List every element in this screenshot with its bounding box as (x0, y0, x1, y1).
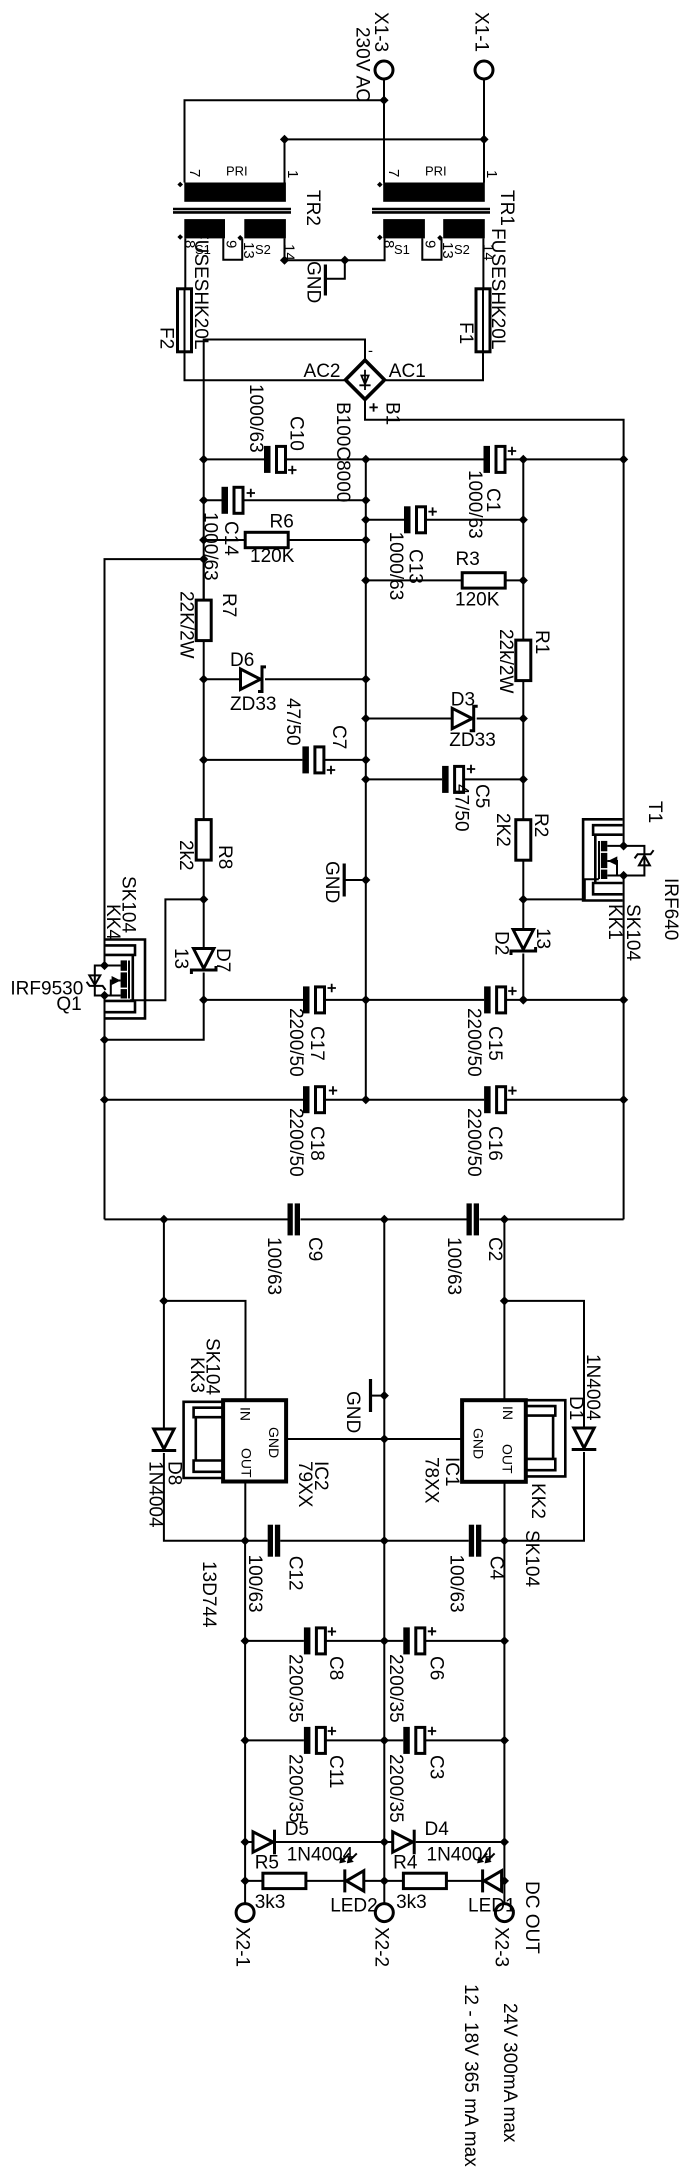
junction far-left rail / C18 row (100, 1095, 109, 1104)
TR2 pin 8 polarity dot (177, 234, 183, 240)
junction center rail / C14 row (361, 496, 370, 505)
wire F1 to bridge AC1 (386, 352, 483, 380)
wire TR2 pin14 to GND node (285, 238, 345, 260)
junction X1-3 node (379, 96, 388, 105)
junction -out rail / R5 row (241, 1876, 250, 1885)
svg-text:GND: GND (303, 261, 324, 303)
svg-text:R2: R2 (530, 813, 551, 837)
transformer TR1 (372, 183, 490, 239)
C18 plus mark (329, 1086, 337, 1094)
TR1 pin 13 polarity dot (437, 235, 443, 241)
svg-text:D3: D3 (451, 689, 475, 710)
ground GND (center rail) (344, 864, 366, 897)
svg-text:9: 9 (422, 240, 439, 248)
wire bridge plus to plus rail (365, 399, 624, 459)
svg-text:D8: D8 (164, 1461, 185, 1485)
wire feed to D1 anode (504, 1301, 584, 1428)
svg-text:2200/50: 2200/50 (285, 1108, 306, 1177)
svg-text:D4: D4 (425, 1819, 450, 1840)
svg-text:-: - (368, 343, 373, 360)
svg-text:9: 9 (223, 240, 240, 248)
svg-text:KK1: KK1 (604, 904, 625, 940)
svg-text:C2: C2 (484, 1237, 505, 1261)
TR2 pin 7 polarity dot (177, 182, 183, 188)
svg-text:Q1: Q1 (56, 994, 81, 1015)
wire F2 to bridge AC2 (185, 352, 345, 380)
wire bus left segment (105, 1218, 288, 1220)
svg-text:FUSESHK20L: FUSESHK20L (190, 228, 211, 349)
junction IC2 OUT node (241, 1536, 250, 1545)
svg-text:R8: R8 (214, 845, 235, 869)
zener diode D7 (191, 949, 216, 1000)
svg-text:2200/35: 2200/35 (284, 1654, 305, 1723)
svg-text:DC OUT: DC OUT (521, 1881, 542, 1954)
svg-text:78XX: 78XX (421, 1457, 442, 1504)
svg-text:120K: 120K (250, 546, 295, 567)
C8 plus mark (328, 1627, 336, 1635)
svg-text:C3: C3 (426, 1755, 447, 1779)
junction bus / IC1 feed (500, 1215, 509, 1224)
junction left rail / C10 row (199, 455, 208, 464)
svg-text:7: 7 (385, 169, 402, 177)
svg-text:R5: R5 (255, 1853, 279, 1874)
junction +out rail / C6 row (500, 1636, 509, 1645)
junction GND rail / C8 row (380, 1636, 389, 1645)
terminal X2-2 (375, 1904, 393, 1922)
capacitor C7 (204, 746, 366, 773)
svg-text:C15: C15 (484, 1026, 505, 1061)
C3 plus mark (428, 1727, 436, 1735)
LED1 (477, 1853, 504, 1892)
junction GND rail / D5 row (380, 1837, 389, 1846)
wire plus rail lower (623, 876, 625, 1220)
junction plus rail / C16 row (619, 1095, 628, 1104)
resistor R5 (245, 1873, 345, 1888)
svg-text:1000/63: 1000/63 (245, 384, 266, 453)
voltage regulator IC1 78XX (462, 1400, 526, 1482)
svg-text:C11: C11 (325, 1755, 346, 1788)
wire R8 node to Q1 gate (130, 899, 204, 1000)
junction center rail / D3 row (361, 714, 370, 723)
svg-text:47/50: 47/50 (282, 698, 303, 746)
fuse F2 (178, 289, 192, 352)
capacitor C2 (467, 1203, 472, 1235)
svg-text:D2: D2 (491, 931, 512, 955)
wire left rail jog to far-left rail (105, 1000, 204, 1040)
svg-text:TR2: TR2 (302, 190, 323, 226)
junction center rail / C10/C1 row (361, 455, 370, 464)
junction center rail / D6 row (361, 675, 370, 684)
junction center rail / C7 row (361, 755, 370, 764)
junction D2 / C15 row (519, 995, 528, 1004)
capacitor C5 (366, 766, 524, 793)
junction center rail / C17/C15 row (361, 995, 370, 1004)
wire to TR2 pin1 (285, 139, 485, 182)
terminal X2-3 (495, 1904, 513, 1922)
C17 plus mark (328, 984, 336, 992)
svg-text:12 - 18V 365 mA max: 12 - 18V 365 mA max (460, 1984, 481, 2167)
junction center rail / C13 row (361, 515, 370, 524)
junction +out rail / D4 row (500, 1837, 509, 1846)
capacitor C9 (288, 1203, 293, 1235)
svg-text:24V 300mA max: 24V 300mA max (499, 2003, 520, 2143)
svg-text:1: 1 (483, 170, 500, 178)
svg-text:C8: C8 (325, 1656, 346, 1680)
terminal X2-1 (236, 1904, 254, 1922)
svg-text:C12: C12 (284, 1556, 305, 1591)
junction plus rail / C15 row (619, 995, 628, 1004)
svg-text:ZD33: ZD33 (449, 730, 495, 751)
svg-text:ZD33: ZD33 (230, 694, 276, 715)
junction TR2 pin14 (280, 256, 289, 265)
wire X1-1 to TR1 pin1 (483, 79, 485, 183)
svg-text:C4: C4 (485, 1556, 506, 1581)
junction +out rail / LED1 row (500, 1876, 509, 1885)
svg-text:IN: IN (237, 1407, 253, 1421)
terminal X1-3 (375, 61, 393, 79)
C7 plus mark (327, 766, 335, 774)
transistor Q1 IRF9530 (105, 960, 130, 998)
junction T1 drain (619, 841, 628, 850)
junction bus / IC2 feed (159, 1215, 168, 1224)
diode D1 (504, 1428, 596, 1541)
svg-text:C16: C16 (484, 1126, 505, 1161)
capacitor C11 (245, 1727, 384, 1754)
junction Q1 source (100, 961, 109, 970)
wire plus output rail (503, 1541, 505, 1904)
transistor T1 IRF640 (599, 841, 624, 879)
svg-text:100/63: 100/63 (443, 1237, 464, 1295)
LED2 (339, 1853, 384, 1892)
junction C1 / plus rail (619, 455, 628, 464)
capacitor C8 (245, 1627, 384, 1654)
heatsink KK2 (526, 1400, 566, 1476)
C15 plus mark (508, 987, 516, 995)
capacitor C13 (366, 506, 524, 533)
capacitor C10 (204, 446, 366, 473)
svg-text:C7: C7 (328, 725, 349, 749)
svg-text:C17: C17 (306, 1026, 327, 1061)
junction T1 source (619, 871, 628, 880)
svg-text:OUT: OUT (499, 1444, 515, 1474)
svg-text:22K/2W: 22K/2W (176, 591, 197, 659)
wire bus right segment (480, 1218, 624, 1220)
junction D7 / C17 row (199, 995, 208, 1004)
wire bus to IC2 feed node (163, 1219, 165, 1301)
fuse F1 (476, 289, 490, 352)
svg-text:TR1: TR1 (496, 190, 517, 226)
junction C15 / D2 line (519, 995, 528, 1004)
svg-text:PRI: PRI (425, 164, 447, 179)
capacitor C18 (105, 1086, 366, 1113)
wire IC1 GND pin (384, 1438, 462, 1440)
junction 523 rail / C5 row (519, 775, 528, 784)
wire TR2 pin8 to fuse F2 (184, 238, 186, 288)
C1 plus mark (508, 447, 516, 455)
capacitor C15 (366, 986, 624, 1013)
svg-text:2200/50: 2200/50 (463, 1108, 484, 1177)
svg-text:S1: S1 (394, 242, 410, 257)
junction Q1 drain (100, 991, 109, 1000)
capacitor C4 (384, 1525, 504, 1557)
resistor R3 (366, 573, 524, 588)
svg-text:F2: F2 (156, 327, 177, 349)
zener diode D3 (366, 706, 524, 731)
svg-text:F1: F1 (455, 322, 476, 344)
svg-text:SK104: SK104 (118, 876, 139, 933)
svg-text:C13: C13 (405, 549, 426, 584)
svg-text:2K2: 2K2 (492, 813, 513, 847)
wire TR1 pin14 to fuse F1 (482, 238, 484, 288)
wire left rail to far-left rail (Q1 source) (105, 559, 204, 965)
junction left rail / R6 row (199, 535, 208, 544)
junction GND stem (380, 1391, 389, 1400)
svg-text:D7: D7 (212, 948, 233, 972)
wire plus rail upper (623, 459, 625, 846)
svg-text:3k3: 3k3 (396, 1892, 427, 1913)
capacitor C12 (245, 1525, 384, 1557)
svg-text:C6: C6 (426, 1656, 447, 1680)
C14 plus mark (247, 489, 255, 497)
svg-text:47/50: 47/50 (451, 784, 472, 832)
svg-text:1N4004: 1N4004 (582, 1354, 603, 1421)
svg-text:13D744: 13D744 (198, 1561, 219, 1628)
junction center rail / R6 row (361, 535, 370, 544)
svg-text:C10: C10 (286, 416, 307, 451)
wire minus output rail (244, 1541, 246, 1904)
svg-text:1000/63: 1000/63 (464, 470, 485, 539)
wire TR1 pin8 to GND node (345, 238, 385, 260)
resistor R8 (196, 820, 211, 949)
zener diode D2 (511, 930, 536, 1000)
wire IC2 OUT pin (244, 1482, 246, 1541)
svg-text:13: 13 (170, 948, 191, 969)
svg-text:X2-3: X2-3 (491, 1927, 512, 1967)
junction IC1 OUT node (500, 1536, 509, 1545)
svg-text:IN: IN (500, 1406, 516, 1420)
junction far-left rail / jog (100, 1035, 109, 1044)
junction -out rail / C8 row (241, 1636, 250, 1645)
heatsink KK4 (106, 940, 146, 1019)
wire bridge minus to left rail (204, 340, 365, 460)
junction bus / GND feed (380, 1215, 389, 1224)
svg-text:S2: S2 (255, 242, 271, 257)
junction center rail / GND stem (361, 875, 370, 884)
junction center rail / C5 row (361, 775, 370, 784)
bridge plus mark (369, 403, 377, 411)
junction C13 / 523 rail (519, 515, 528, 524)
svg-text:1N4004: 1N4004 (144, 1461, 165, 1528)
capacitor C16 (366, 1086, 624, 1113)
wire TR1 pins 9-13 series link (422, 238, 441, 259)
junction center rail / C18/C16 row (361, 1095, 370, 1104)
TR2 pin 13 polarity dot (237, 235, 243, 241)
svg-text:PRI: PRI (226, 164, 248, 179)
svg-text:C18: C18 (306, 1126, 327, 1161)
wire R2 node to T1 gate (523, 879, 599, 899)
svg-text:22k/2W: 22k/2W (495, 629, 516, 693)
svg-text:SK104: SK104 (521, 1530, 542, 1587)
svg-text:C5: C5 (471, 784, 492, 808)
svg-text:GND: GND (470, 1428, 486, 1459)
svg-text:R7: R7 (218, 593, 239, 617)
capacitor C3 (384, 1727, 504, 1754)
junction at TR2 pin1 wire (280, 135, 289, 144)
diode D8 (152, 1301, 246, 1541)
wire GND rail to X2-2 (383, 1881, 385, 1904)
svg-text:100/63: 100/63 (263, 1237, 284, 1295)
junction left rail / C7 row (199, 755, 208, 764)
resistor R4 (384, 1873, 482, 1888)
junction GND rail / regulator GND pins (380, 1434, 389, 1443)
svg-text:1000/63: 1000/63 (385, 532, 406, 601)
svg-text:C14: C14 (220, 521, 241, 556)
svg-text:GND: GND (342, 1391, 363, 1433)
svg-text:X2-2: X2-2 (371, 1927, 392, 1967)
C6 plus mark (428, 1627, 436, 1635)
resistor R7 (196, 559, 211, 820)
svg-text:2k2: 2k2 (175, 840, 196, 871)
transformer TR2 (173, 183, 291, 239)
svg-text:S2: S2 (454, 242, 470, 257)
svg-text:100/63: 100/63 (445, 1555, 466, 1613)
svg-text:GND: GND (266, 1427, 282, 1458)
heatsink KK3 (184, 1402, 224, 1478)
C16 plus mark (508, 1086, 516, 1094)
wire lower GND rail (383, 1219, 385, 1881)
svg-text:SK104: SK104 (202, 1338, 223, 1395)
C11 plus mark (328, 1727, 336, 1735)
svg-text:13: 13 (532, 928, 553, 949)
svg-text:2200/50: 2200/50 (285, 1008, 306, 1077)
svg-text:SK104: SK104 (622, 904, 643, 961)
junction IC2 feed / D8 line (159, 1296, 168, 1305)
T1 body diode (624, 846, 654, 876)
svg-text:D6: D6 (230, 650, 254, 671)
junction left rail / D6 row (199, 675, 208, 684)
C13 plus mark (428, 507, 436, 515)
svg-text:R1: R1 (531, 630, 552, 654)
wire feed to IC2 IN (164, 1301, 246, 1400)
junction center rail / R3 row (361, 576, 370, 585)
svg-text:B1: B1 (382, 402, 403, 425)
capacitor C14 (204, 487, 366, 514)
junction X1-1 node (479, 135, 488, 144)
junction GND rail / LED row (380, 1876, 389, 1885)
C5 plus mark (467, 765, 475, 773)
Q1 body diode (87, 966, 106, 996)
wire 523-rail top segment (522, 459, 524, 640)
svg-text:2200/35: 2200/35 (385, 1754, 406, 1823)
ground GND (regulators) (371, 1379, 385, 1412)
junction R3 / 523 rail (519, 576, 528, 585)
wire far-left rail to bus (104, 996, 106, 1220)
svg-text:3k3: 3k3 (255, 1892, 286, 1913)
junction +out rail / C3 row (500, 1736, 509, 1745)
svg-text:LED2: LED2 (330, 1896, 378, 1917)
svg-text:FUSESHK20L: FUSESHK20L (487, 228, 508, 349)
svg-text:120K: 120K (455, 589, 500, 610)
resistor R1 (516, 640, 531, 681)
capacitor C1 (366, 446, 624, 473)
svg-text:IC1: IC1 (441, 1457, 462, 1487)
svg-text:230V AC: 230V AC (352, 27, 373, 102)
capacitor C17 (204, 986, 366, 1013)
svg-text:7: 7 (186, 169, 203, 177)
svg-text:1: 1 (284, 170, 301, 178)
junction R8/D7/Q1 gate (199, 895, 208, 904)
TR1 pin 7 polarity dot (377, 182, 383, 188)
zener diode D6 (204, 667, 366, 692)
heatsink KK1 (583, 819, 623, 900)
capacitor C6 (384, 1627, 504, 1654)
TR1 pin 8 polarity dot (377, 235, 383, 241)
wire to TR2 pin7 (185, 100, 385, 182)
wire IC1 OUT pin (504, 1482, 506, 1541)
wire bus middle segment (301, 1218, 467, 1220)
ground GND (transformer center tap) (325, 260, 344, 295)
svg-text:1000/63: 1000/63 (199, 512, 220, 581)
junction -out rail / D5 row (241, 1837, 250, 1846)
svg-text:2200/50: 2200/50 (463, 1008, 484, 1077)
svg-text:2200/35: 2200/35 (284, 1754, 305, 1823)
junction GND rail / C11 row (380, 1736, 389, 1745)
junction 523 rail / D3 row (519, 714, 528, 723)
svg-text:79XX: 79XX (294, 1461, 315, 1508)
junction GND rail / OUT row (380, 1536, 389, 1545)
svg-text:OUT: OUT (238, 1448, 254, 1478)
junction C1 / 523 rail top (519, 455, 528, 464)
wire IC2 GND pin (286, 1438, 384, 1440)
resistor R6 (204, 532, 366, 547)
svg-text:AC2: AC2 (304, 361, 341, 382)
svg-text:100/63: 100/63 (244, 1555, 265, 1613)
terminal X1-1 (475, 61, 493, 79)
resistor R2 (516, 820, 531, 930)
wire TR2 pins 9-13 series link (223, 238, 242, 259)
svg-text:C1: C1 (482, 488, 503, 512)
svg-text:1N4004: 1N4004 (427, 1845, 494, 1866)
svg-text:R3: R3 (456, 549, 480, 570)
diode D4 (384, 1830, 504, 1855)
bridge rectifier B1 (346, 360, 385, 399)
junction left rail / far-left branch (199, 555, 208, 564)
svg-text:2200/35: 2200/35 (385, 1654, 406, 1723)
wire center GND rail (365, 459, 367, 1099)
svg-text:AC1: AC1 (389, 361, 426, 382)
svg-text:X1-1: X1-1 (471, 12, 492, 52)
wire bus to IC1 IN (503, 1219, 505, 1400)
svg-text:GND: GND (321, 861, 342, 903)
svg-text:D5: D5 (285, 1819, 309, 1840)
svg-text:C9: C9 (304, 1237, 325, 1261)
diode D5 (245, 1830, 384, 1855)
junction left rail / C14 row (199, 496, 208, 505)
wire X1-3 to TR1 pin7 (383, 79, 385, 183)
svg-text:R6: R6 (270, 512, 294, 533)
C10 plus mark (288, 466, 296, 474)
wire left rail upper (203, 459, 205, 600)
svg-text:KK2: KK2 (527, 1483, 548, 1519)
junction R2/D2/T1 gate (519, 895, 528, 904)
junction GND node (340, 256, 349, 265)
wire 523-rail mid segment (522, 681, 524, 820)
svg-text:X2-1: X2-1 (232, 1927, 253, 1967)
junction -out rail / C11 row (241, 1736, 250, 1745)
voltage regulator IC2 79XX (223, 1400, 286, 1481)
svg-text:IRF640: IRF640 (660, 878, 681, 940)
svg-text:B100C8000: B100C8000 (332, 402, 353, 502)
